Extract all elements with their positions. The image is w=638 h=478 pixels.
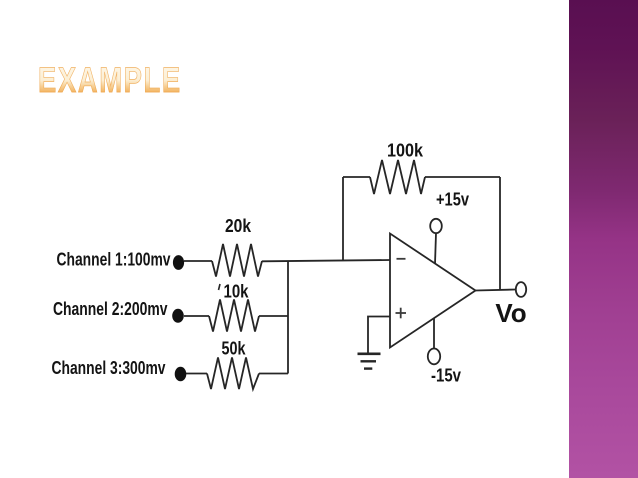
svg-text:Channel 3:300mv: Channel 3:300mv xyxy=(52,358,166,378)
wire summing bus vertical xyxy=(287,261,289,374)
wire feedback top left xyxy=(343,176,370,178)
op-amp minus pin label xyxy=(397,258,406,260)
svg-text:50k: 50k xyxy=(222,339,247,359)
resistor R1 20k xyxy=(212,244,262,277)
svg-text:100k: 100k xyxy=(387,141,424,161)
wire channel1 left xyxy=(184,260,212,262)
svg-text:Vo: Vo xyxy=(495,298,526,328)
wire channel2 to bus xyxy=(259,315,288,317)
wire feedback left vertical xyxy=(342,177,344,261)
wire channel3 left xyxy=(186,373,207,375)
resistor R2 10k xyxy=(209,300,259,332)
right purple gradient sidebar xyxy=(569,0,638,478)
resistor Rf 100k xyxy=(370,160,425,194)
wire feedback right vertical xyxy=(499,177,501,290)
input terminal dot channel1 xyxy=(173,255,184,270)
wire feedback top right xyxy=(425,176,500,178)
stray tick before 10k xyxy=(219,284,221,290)
slide title EXAMPLE xyxy=(38,61,182,101)
input terminal dot channel2 xyxy=(172,309,184,323)
ground xyxy=(358,354,381,369)
resistor R3 50k xyxy=(207,358,259,390)
wire channel2 left xyxy=(184,315,209,317)
wire noninverting input xyxy=(368,317,390,355)
op-amp plus pin label xyxy=(396,308,407,319)
wire channel3 to bus xyxy=(259,373,288,375)
op-amp U1 triangle xyxy=(390,234,476,348)
wire -15v stem xyxy=(433,319,435,349)
wire +15v stem xyxy=(435,233,436,264)
+15v terminal circle xyxy=(430,219,442,233)
svg-text:+15v: +15v xyxy=(436,190,469,210)
-15v terminal circle xyxy=(428,349,440,365)
input terminal dot channel3 xyxy=(175,367,187,381)
svg-text:-15v: -15v xyxy=(431,366,461,386)
svg-text:10k: 10k xyxy=(224,282,250,302)
output terminal circle xyxy=(516,282,526,297)
wire output xyxy=(476,290,516,291)
svg-text:20k: 20k xyxy=(225,216,252,236)
wire channel1 to op-amp inverting input xyxy=(262,260,390,261)
svg-text:Channel 1:100mv: Channel 1:100mv xyxy=(57,250,171,270)
svg-text:Channel 2:200mv: Channel 2:200mv xyxy=(53,299,168,319)
